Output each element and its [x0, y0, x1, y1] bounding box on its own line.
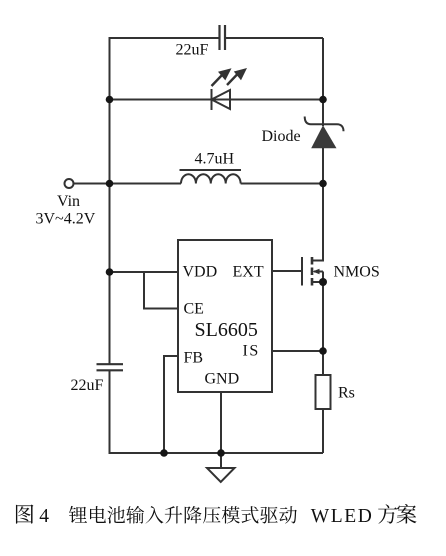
svg-text:3V~4.2V: 3V~4.2V — [36, 211, 96, 228]
wire: top segment right (C1 to right rail) — [226, 37, 323, 39]
wire: EXT pin wire to NMOS gate — [272, 270, 301, 272]
junction node: IS / Rs top — [319, 347, 327, 355]
svg-text:WLED: WLED — [311, 506, 374, 527]
wire: CE pin branch — [144, 272, 178, 309]
wire: right rail top (y38 to Schottky cathode) — [322, 38, 324, 126]
wire: top segment left (rail to C1) — [109, 37, 219, 39]
transistor Q1 NMOS — [302, 257, 323, 286]
label Vin — [57, 193, 80, 210]
schottky diode D2 cathode bar with hooks — [305, 117, 344, 132]
svg-text:EXT: EXT — [233, 264, 264, 281]
label Diode — [262, 128, 301, 145]
caption latin text: 4 — [39, 506, 49, 527]
junction node: left rail / VDD wire — [106, 268, 114, 276]
resistor R1 Rs — [316, 375, 331, 409]
svg-text:4: 4 — [39, 506, 49, 527]
LED D1 — [212, 73, 239, 110]
capacitor C1 22uF (top) — [220, 25, 226, 50]
caption CJK text: 图 锂电池输入升降压模式驱动 方案 — [16, 504, 417, 524]
label 3V~4.2V — [36, 211, 96, 228]
wire: bottom rail — [109, 452, 324, 454]
svg-text:4.7uH: 4.7uH — [195, 151, 235, 168]
wire: FB pin wire — [164, 356, 178, 453]
wire: left rail below C2 to bottom — [109, 371, 111, 453]
junction node: FB / bottom rail — [160, 449, 168, 457]
value label Rs — [338, 385, 355, 402]
wire: GND pin wire — [220, 392, 222, 453]
svg-text:Diode: Diode — [262, 128, 301, 145]
value label 22uF (C1) — [176, 42, 209, 59]
svg-text:NMOS: NMOS — [334, 264, 380, 281]
junction node: NMOS source — [319, 278, 327, 286]
svg-text:22uF: 22uF — [176, 42, 209, 59]
svg-text:CE: CE — [184, 301, 204, 318]
inductor L1 4.7uH — [180, 170, 242, 184]
capacitor C2 22uF (left rail) — [97, 364, 124, 370]
wire: VDD pin wire — [110, 271, 179, 273]
svg-text:SL6605: SL6605 — [195, 319, 258, 341]
svg-text:IS: IS — [243, 343, 260, 360]
label NMOS — [334, 264, 380, 281]
wire: left rail (Vin rail, top y38 to C2 top plate) — [109, 38, 111, 364]
op-amp U1 SL6605 IC body — [178, 240, 272, 392]
svg-text:GND: GND — [205, 371, 240, 388]
wire: IS pin wire — [272, 350, 323, 352]
junction node: GND / bottom rail — [217, 449, 225, 457]
transistor Q1 body arrow — [313, 269, 320, 275]
schottky diode D2 body (filled triangle) — [311, 125, 336, 148]
svg-text:22uF: 22uF — [71, 377, 104, 394]
pin label VDD — [183, 264, 218, 281]
value label 4.7uH (L1) — [195, 151, 235, 168]
ground symbol — [207, 453, 235, 482]
part number SL6605 — [195, 319, 258, 341]
pin label GND — [205, 371, 240, 388]
wire: inductor row right (coil to right rail) — [241, 183, 323, 185]
caption latin text: WLED — [311, 506, 374, 527]
wire: Rs bottom to bottom rail — [322, 409, 324, 453]
svg-text:VDD: VDD — [183, 264, 218, 281]
svg-text:FB: FB — [184, 350, 204, 367]
pin label IS — [243, 343, 260, 360]
junction node: right rail / LED row — [319, 96, 327, 104]
value label 22uF (C2) — [71, 377, 104, 394]
terminal: Vin input — [65, 179, 74, 188]
wire: right rail (diode anode to NMOS drain) — [312, 148, 324, 261]
svg-text:Vin: Vin — [57, 193, 80, 210]
wire: right rail (NMOS source to IS junction to Rs) — [322, 282, 324, 375]
pin label EXT — [233, 264, 264, 281]
LED D1 light arrowheads — [218, 68, 247, 80]
svg-text:Rs: Rs — [338, 385, 355, 402]
pin label FB — [184, 350, 204, 367]
wire: LED row — [110, 99, 324, 101]
junction node: right rail / inductor row — [319, 180, 327, 188]
junction node: left rail / Vin row — [106, 180, 114, 188]
wire: inductor row left (Vin terminal to coil) — [74, 183, 182, 185]
junction node: left rail / LED row — [106, 96, 114, 104]
pin label CE — [184, 301, 204, 318]
